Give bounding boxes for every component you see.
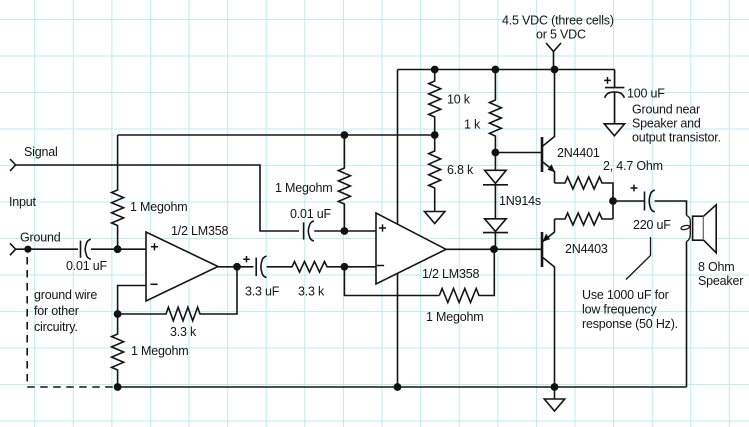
resistor 3.3 k series [267, 262, 376, 299]
svg-text:for other: for other [34, 304, 79, 318]
svg-text:Signal: Signal [24, 145, 58, 159]
svg-text:3.3 k: 3.3 k [298, 285, 325, 299]
ground under 100 uF [604, 124, 624, 136]
resistor 1 Megohm feedback U1B [426, 249, 494, 324]
ground input connector [10, 243, 16, 255]
svg-text:Speaker: Speaker [698, 274, 743, 288]
node plus-input-U1A [114, 245, 122, 253]
node plus-input-U1B [341, 227, 349, 235]
op-amp U1A 1/2 LM358 [146, 224, 229, 301]
svg-text:2, 4.7 Ohm: 2, 4.7 Ohm [603, 159, 663, 173]
svg-text:or 5 VDC: or 5 VDC [536, 28, 586, 42]
ground symbol main [544, 387, 564, 411]
resistor 1 k [464, 70, 501, 153]
svg-text:Ground near: Ground near [632, 103, 700, 117]
note ground wire [34, 288, 97, 334]
node rail-1k [492, 66, 500, 74]
resistor 1 Megohm bias middle [275, 135, 350, 231]
svg-text:0.01 uF: 0.01 uF [66, 259, 108, 273]
wire 1k to diode string [494, 153, 496, 171]
note use 1000 uF [582, 288, 678, 331]
svg-text:3.3 k: 3.3 k [170, 325, 197, 339]
wire cap to U1B + [314, 230, 376, 232]
svg-text:Ground: Ground [20, 231, 61, 245]
svg-text:3.3 uF: 3.3 uF [245, 285, 280, 299]
svg-text:1 Megohm: 1 Megohm [275, 181, 332, 195]
power input connector V+ [546, 43, 561, 70]
node U1B-ground [394, 383, 402, 391]
svg-text:10 k: 10 k [447, 93, 471, 107]
svg-text:1/2 LM358: 1/2 LM358 [171, 224, 229, 238]
node bias-1Megohm [341, 131, 349, 139]
wire V+ rail [398, 69, 615, 71]
resistor 4.7 Ohm top [555, 177, 614, 201]
wire dashed ground for other circuitry [27, 257, 117, 387]
label signal input [9, 145, 61, 245]
node ground-input [24, 246, 31, 253]
svg-text:1 Megohm: 1 Megohm [426, 310, 483, 324]
wire U1B ground pin [397, 274, 399, 388]
capacitor 0.01 uF middle [290, 207, 332, 241]
wire ground input [16, 248, 78, 250]
svg-text:low frequency: low frequency [582, 303, 657, 317]
svg-text:response (50 Hz).: response (50 Hz). [582, 317, 678, 331]
svg-text:1 k: 1 k [464, 118, 481, 132]
wire cap to op-amp U1A + [91, 248, 146, 250]
svg-text:circuitry.: circuitry. [34, 320, 78, 334]
node rail-10k [431, 66, 439, 74]
wire U1B output [446, 248, 541, 250]
node bias-10k-6.8k [431, 131, 439, 139]
svg-text:1N914s: 1N914s [499, 194, 541, 208]
node rail-Q2 [551, 383, 559, 391]
wire op-amp U1B power pin [397, 70, 399, 226]
svg-text:output transistor.: output transistor. [632, 131, 721, 145]
wire junction to 220uF [613, 200, 645, 202]
capacitor 100 uF [604, 70, 665, 124]
svg-text:Speaker and: Speaker and [632, 117, 701, 131]
capacitor 3.3 uF [243, 256, 280, 299]
resistor 1 Megohm bias left [112, 135, 188, 249]
transistor Q2 2N4403 [542, 219, 608, 387]
capacitor 220 uF [631, 185, 672, 232]
speaker terminal loop [681, 225, 690, 231]
label power supply [502, 14, 614, 42]
svg-text:2N4403: 2N4403 [565, 242, 608, 256]
svg-text:1 Megohm: 1 Megohm [130, 200, 187, 214]
wire 220uF to speaker [655, 201, 687, 387]
node rail-Q1 [551, 66, 559, 74]
wire signal [16, 165, 299, 231]
wire bias rail [118, 134, 435, 136]
wire U1A inverting input [118, 286, 146, 315]
svg-text:220 uF: 220 uF [633, 218, 671, 232]
wire base Q1 [495, 152, 541, 154]
node output-U1A [233, 263, 241, 271]
resistor 1 Megohm to ground rail [112, 314, 189, 387]
resistor 3.3 k feedback [118, 267, 237, 339]
wire U1B feedback [344, 267, 439, 296]
svg-text:Input: Input [9, 195, 37, 209]
svg-text:0.01 uF: 0.01 uF [290, 207, 332, 221]
resistor 6.8 k [429, 135, 474, 212]
annotation leader curve [626, 237, 651, 280]
svg-text:1 Megohm: 1 Megohm [131, 344, 188, 358]
svg-text:Use 1000 uF for: Use 1000 uF for [582, 288, 669, 302]
ground under 6.8 k [425, 212, 445, 224]
diode D1 1N914 [483, 170, 508, 219]
resistor 10 k [429, 70, 471, 136]
speaker connection bumps [687, 216, 691, 242]
note ground near speaker [632, 103, 721, 145]
node output-junction [609, 197, 617, 205]
node output-U1B [490, 245, 498, 253]
wire U1A output [218, 266, 254, 268]
resistor 4.7 Ohm bottom [555, 201, 614, 225]
svg-text:4.5 VDC (three cells): 4.5 VDC (three cells) [502, 14, 614, 28]
svg-text:2N4401: 2N4401 [557, 146, 600, 160]
node minus-input-U1B [341, 263, 349, 271]
op-amp U1B 1/2 LM358 [376, 213, 480, 284]
svg-text:6.8 k: 6.8 k [447, 163, 474, 177]
node feedback-U1A [114, 310, 122, 318]
node rail-1Megohm [114, 383, 122, 391]
svg-text:100 uF: 100 uF [627, 87, 665, 101]
transistor Q1 2N4401 [542, 70, 600, 184]
signal input connector [10, 159, 16, 171]
speaker 8 Ohm [693, 205, 744, 288]
node diode-top [492, 149, 500, 157]
svg-text:1/2 LM358: 1/2 LM358 [422, 267, 480, 281]
capacitor 0.01 uF input [66, 239, 108, 273]
diode D2 1N914 [483, 219, 508, 250]
svg-text:8 Ohm: 8 Ohm [698, 260, 735, 274]
wire ground rail [118, 386, 687, 388]
svg-text:ground wire: ground wire [34, 288, 97, 302]
